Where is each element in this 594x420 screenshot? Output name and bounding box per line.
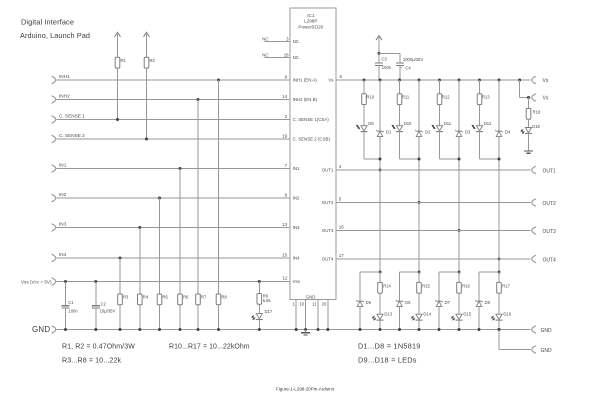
wire IN3 <box>57 227 290 229</box>
svg-text:PowerSO20: PowerSO20 <box>298 24 323 29</box>
resistor R5 <box>157 294 168 305</box>
junction R5 / GND <box>158 328 161 331</box>
wire Vss to R9 <box>258 282 260 294</box>
resistor R15 <box>417 272 431 293</box>
resistor R7 <box>196 294 207 305</box>
wire INH1 to R8 <box>218 80 220 294</box>
svg-text:14: 14 <box>282 94 288 99</box>
wire lower link 1 <box>360 272 380 301</box>
node C. SENSE 2 connector <box>52 133 86 143</box>
wire C3/C4 branch <box>379 53 400 63</box>
pin 12 Vss <box>282 275 288 280</box>
svg-text:D9...D18 = LEDs: D9...D18 = LEDs <box>358 356 417 365</box>
svg-text:D5: D5 <box>366 300 372 305</box>
svg-text:INH1: INH1 <box>59 74 70 79</box>
wire R11 to D10 <box>399 105 401 126</box>
resistor R9 5.6k <box>257 294 272 305</box>
wire D4 to OUT4 <box>498 137 500 259</box>
svg-text:R11: R11 <box>402 95 410 100</box>
svg-text:NC: NC <box>262 52 268 57</box>
svg-text:OUT4: OUT4 <box>543 257 557 263</box>
LED D16 <box>492 312 512 321</box>
LED D18 <box>521 124 540 133</box>
wire Vs stub to Vs connector 2 <box>520 80 531 98</box>
svg-text:20: 20 <box>322 302 327 307</box>
svg-text:R15: R15 <box>422 283 430 288</box>
junction OUT2 <box>418 201 421 204</box>
junction OUT3 <box>458 229 461 232</box>
node OUT1 connector <box>532 166 556 174</box>
resistor R18 <box>526 108 541 119</box>
wire IN3 to R4 <box>139 228 141 295</box>
svg-text:100n: 100n <box>382 65 392 70</box>
junction Vss / R9 <box>258 280 261 283</box>
wire OUT4 to lower link <box>498 259 500 272</box>
pin 13 IN3 <box>282 222 288 227</box>
svg-text:IN1: IN1 <box>293 166 300 171</box>
wire R9 to D17 <box>258 304 260 313</box>
svg-text:D14: D14 <box>423 312 431 317</box>
wire Vss <box>57 281 290 283</box>
svg-text:NC: NC <box>262 36 268 41</box>
svg-text:R1, R2 = 0.47Ohm/3W: R1, R2 = 0.47Ohm/3W <box>62 344 135 351</box>
svg-text:R10: R10 <box>366 95 374 100</box>
svg-text:C. SENSE 2 (CSB): C. SENSE 2 (CSB) <box>293 137 331 142</box>
node GND connector <box>32 325 56 334</box>
pin 20 GND stub <box>322 299 330 331</box>
node OUT4 connector <box>532 255 556 263</box>
junction Vss / C1 <box>64 280 67 283</box>
wire INH2 <box>57 99 290 101</box>
svg-text:R2: R2 <box>150 58 156 63</box>
svg-text:R5: R5 <box>163 294 169 299</box>
junction Vs rail / D2 <box>418 79 421 82</box>
junction R4 / GND <box>138 328 141 331</box>
wire D13 to GND <box>379 320 382 331</box>
wire R4 to GND <box>139 305 141 330</box>
junction lower link 4 <box>498 271 501 274</box>
svg-text:R17: R17 <box>502 283 510 288</box>
resistor R2 <box>144 57 155 68</box>
diode D8 1N5819 <box>475 300 490 307</box>
wire R18 to D18 <box>528 119 530 127</box>
svg-text:D15: D15 <box>463 312 471 317</box>
svg-text:NC: NC <box>293 55 299 60</box>
svg-text:D17: D17 <box>265 309 273 314</box>
wire OUT3 to lower link <box>458 231 460 273</box>
svg-text:OUT1: OUT1 <box>322 168 334 173</box>
LED D10 <box>392 121 412 131</box>
node OUT3 connector <box>532 227 556 235</box>
resistor R6 <box>178 294 189 305</box>
junction R18 / Vs stub <box>527 96 530 99</box>
svg-text:R7: R7 <box>201 294 207 299</box>
pin 4 OUT1 <box>339 164 342 169</box>
svg-text:13: 13 <box>282 222 288 227</box>
wire IN4 to R3 <box>119 258 121 294</box>
svg-text:L298P: L298P <box>304 19 317 24</box>
title text Arduino, Launch Pad <box>20 31 90 40</box>
node INH2 connector <box>52 94 70 104</box>
LED D15 <box>452 312 472 321</box>
junction lower link 3 <box>458 271 461 274</box>
svg-text:R10...R17 = 10...22kOhm: R10...R17 = 10...22kOhm <box>169 344 250 351</box>
wire R2 to C.SENSE 2 <box>146 68 148 139</box>
wire R13 to D12 <box>479 105 481 126</box>
svg-text:Digital Interface: Digital Interface <box>21 17 74 26</box>
wire OUT2 to lower link <box>418 203 420 273</box>
svg-text:GND: GND <box>541 348 553 354</box>
wire R10 to D9 <box>363 105 365 126</box>
capacitor C1 100n <box>62 282 79 330</box>
note D1..D8 value <box>358 342 421 351</box>
junction R1 / C.SENSE 1 <box>116 118 119 121</box>
svg-text:R4: R4 <box>143 294 149 299</box>
svg-text:18: 18 <box>284 52 289 57</box>
pin 3 NC stub <box>262 36 290 41</box>
wire Vs to D1 <box>379 80 381 131</box>
resistor R4 <box>138 294 149 305</box>
junction Vs rail / D1 <box>379 79 382 82</box>
svg-text:D7: D7 <box>445 300 451 305</box>
junction OUT4 <box>498 258 501 261</box>
diode D2 1N5819 <box>415 130 431 137</box>
svg-text:D10: D10 <box>404 121 412 126</box>
pin 14 INH2 <box>282 94 288 99</box>
capacitor C4 1000u/35V <box>396 57 423 80</box>
node IN1 connector <box>52 163 67 173</box>
svg-text:R14: R14 <box>383 283 391 288</box>
svg-text:11: 11 <box>312 302 317 307</box>
svg-text:GND: GND <box>32 325 50 334</box>
svg-text:INH1 (EN A): INH1 (EN A) <box>293 78 318 83</box>
LED D14 <box>412 312 432 321</box>
capacitor C3 100n <box>375 53 392 80</box>
svg-text:IN2: IN2 <box>293 196 300 201</box>
svg-text:5.6k: 5.6k <box>263 298 272 303</box>
wire IN4 <box>57 257 290 259</box>
svg-text:D6: D6 <box>405 300 411 305</box>
svg-text:IN3: IN3 <box>59 222 67 227</box>
junction R8 / GND <box>217 328 220 331</box>
wire Vs to D4 <box>498 80 500 131</box>
svg-text:OUT1: OUT1 <box>543 168 557 174</box>
pin 2 C. SENSE 1 <box>285 114 288 119</box>
wire lower link 2 <box>400 272 420 301</box>
svg-text:R18: R18 <box>533 109 541 114</box>
svg-text:Vs: Vs <box>543 78 549 84</box>
caption Figure-1-L298-20Pin-Arduino <box>276 387 335 392</box>
junction Vs rail / R12 <box>438 79 441 82</box>
junction IN3 / R4 <box>138 226 141 229</box>
wire D10 to link <box>400 132 420 159</box>
svg-text:+: + <box>400 65 403 70</box>
note R1 R2 value <box>62 344 135 351</box>
wire Vs rail <box>336 79 530 81</box>
wire R1 to C.SENSE 1 <box>117 68 119 119</box>
svg-text:1000µ/35V: 1000µ/35V <box>403 57 424 62</box>
wire lower link 3 <box>439 272 459 301</box>
svg-text:IN4: IN4 <box>293 256 300 261</box>
wire D18 to ground <box>528 133 530 151</box>
pin 5 OUT2 <box>339 197 342 202</box>
svg-text:R12: R12 <box>442 95 450 100</box>
junction IN2 / R5 <box>158 197 161 200</box>
node IN2 connector <box>52 192 67 202</box>
junction R6 / GND <box>179 328 182 331</box>
pin 8 INH1 <box>285 74 288 79</box>
node C. SENSE 1 connector <box>52 114 86 124</box>
svg-text:16: 16 <box>339 225 345 230</box>
diode D4 1N5819 <box>495 130 511 137</box>
resistor R13 <box>477 80 490 105</box>
svg-text:10: 10 <box>299 302 304 307</box>
pin 19 C. SENSE 2 <box>282 133 288 138</box>
svg-text:OUT4: OUT4 <box>322 257 334 262</box>
LED D9 <box>357 121 375 131</box>
svg-text:Vss: Vss <box>293 279 301 284</box>
resistor R17 <box>497 272 511 293</box>
wire R15 to D14 <box>418 293 420 314</box>
wire OUT4 <box>336 258 530 260</box>
svg-text:15: 15 <box>282 252 288 257</box>
wire D11 to link <box>440 132 460 159</box>
svg-text:INH2: INH2 <box>59 94 70 99</box>
svg-text:D4: D4 <box>505 130 511 135</box>
junction link / D1 <box>379 158 382 161</box>
junction Vs rail / D3 <box>458 79 461 82</box>
resistor R10 <box>362 80 375 105</box>
pin 6 Vs <box>340 74 343 79</box>
wire D6 to GND <box>398 307 401 331</box>
svg-text:C1: C1 <box>68 300 74 305</box>
junction R2 / C.SENSE 2 <box>145 138 148 141</box>
diode D3 1N5819 <box>455 130 471 137</box>
svg-text:Vs: Vs <box>543 96 549 102</box>
wire OUT3 <box>336 230 530 232</box>
wire lower link 4 <box>479 272 499 301</box>
svg-text:Arduino, Launch Pad: Arduino, Launch Pad <box>20 31 90 40</box>
svg-text:R13: R13 <box>482 95 490 100</box>
svg-text:R6: R6 <box>183 294 189 299</box>
svg-text:D18: D18 <box>532 124 540 129</box>
svg-text:D11: D11 <box>444 121 452 126</box>
pin 11 GND stub <box>312 299 319 331</box>
svg-text:C. SENSE 2: C. SENSE 2 <box>59 133 85 138</box>
svg-text:GND: GND <box>541 328 553 334</box>
svg-text:R8: R8 <box>222 294 228 299</box>
svg-text:Vs: Vs <box>328 78 334 83</box>
svg-text:IN3: IN3 <box>293 225 300 230</box>
wire IN2 <box>57 197 290 199</box>
wire D2 to OUT2 <box>418 137 420 203</box>
wire Vs to D2 <box>418 80 420 131</box>
svg-text:R1: R1 <box>121 58 127 63</box>
resistor R3 <box>118 294 129 305</box>
wire D8 to GND <box>478 307 481 331</box>
LED D17 <box>252 309 273 320</box>
svg-text:D16: D16 <box>503 312 511 317</box>
junction Vs rail / R10 <box>363 79 366 82</box>
svg-text:C. SENSE 1: C. SENSE 1 <box>59 114 85 119</box>
wire C. SENSE 1 <box>57 119 290 121</box>
wire D12 to link <box>480 132 500 159</box>
svg-text:Vss (Vcc = 5V): Vss (Vcc = 5V) <box>21 280 52 285</box>
diode D1 1N5819 <box>376 130 392 137</box>
wire R5 to GND <box>159 305 161 330</box>
junction D17 / GND <box>258 328 261 331</box>
resistor R8 <box>216 294 227 305</box>
pin 18 NC stub <box>262 52 290 57</box>
svg-text:OUT2: OUT2 <box>543 201 557 207</box>
ground symbol at IC <box>301 330 310 335</box>
svg-text:17: 17 <box>339 253 345 258</box>
junction link / D4 <box>498 158 501 161</box>
svg-text:12: 12 <box>282 275 288 280</box>
LED D13 <box>373 312 393 321</box>
supply arrow Vs for R1 <box>115 32 121 57</box>
wire D5 to GND <box>359 307 362 331</box>
node IN4 connector <box>52 252 67 262</box>
svg-text:IN4: IN4 <box>59 252 67 257</box>
wire D14 to GND <box>418 320 421 331</box>
junction R7 / GND <box>197 328 200 331</box>
wire D1 to OUT1 <box>379 137 381 170</box>
svg-text:GND: GND <box>306 294 316 299</box>
svg-text:IN1: IN1 <box>59 163 67 168</box>
wire Vs stub to R18 <box>528 98 530 109</box>
junction OUT1 <box>379 169 382 172</box>
diode D7 1N5819 <box>435 300 450 307</box>
node OUT2 connector <box>532 199 556 207</box>
svg-text:D12: D12 <box>484 121 492 126</box>
wire OUT2 <box>336 202 530 204</box>
supply arrow Vs for R2 <box>144 32 150 57</box>
junction IN1 / R6 <box>179 167 182 170</box>
pin 17 OUT4 <box>339 253 345 258</box>
svg-text:D8: D8 <box>485 300 491 305</box>
node GND connector right 2 <box>532 346 552 354</box>
wire D15 to GND <box>458 320 461 331</box>
wire R12 to D11 <box>439 105 441 126</box>
junction Vs rail / R18 stub <box>518 79 521 82</box>
wire D9 to link <box>364 132 380 159</box>
svg-text:C4: C4 <box>405 65 411 70</box>
junction R3 / GND <box>119 328 122 331</box>
wire OUT1 to lower link <box>379 170 381 272</box>
wire GND stub <box>499 330 530 350</box>
resistor R16 <box>457 272 471 293</box>
wire R7 to GND <box>197 305 199 330</box>
resistor R1 <box>115 57 126 68</box>
svg-text:R3: R3 <box>123 294 129 299</box>
svg-text:D2: D2 <box>425 130 431 135</box>
note R3..R8 value <box>62 357 122 365</box>
resistor R14 <box>378 272 392 293</box>
node Vs connector 1 <box>532 76 549 84</box>
capacitor C2 10u/35V <box>91 282 115 330</box>
node GND connector right 1 <box>532 326 552 334</box>
junction GND rail / stub <box>498 328 501 331</box>
wire IN1 to R6 <box>179 169 181 295</box>
pin 15 IN4 <box>282 252 288 257</box>
note D9..D18 value <box>358 356 417 365</box>
svg-text:19: 19 <box>282 133 288 138</box>
diode D6 1N5819 <box>396 300 411 307</box>
svg-text:R3...R8 = 10...22k: R3...R8 = 10...22k <box>62 357 122 365</box>
wire D7 to GND <box>438 307 441 331</box>
wire OUT1 <box>336 169 530 171</box>
svg-text:D1: D1 <box>386 130 392 135</box>
svg-text:IN2: IN2 <box>59 192 67 197</box>
junction link / D2 <box>418 158 421 161</box>
node INH1 connector <box>52 74 70 84</box>
pin 16 OUT3 <box>339 225 345 230</box>
pin 1 GND stub <box>292 299 297 331</box>
svg-text:OUT3: OUT3 <box>322 228 334 233</box>
wire R17 to D16 <box>498 293 500 314</box>
svg-text:100n: 100n <box>68 308 78 313</box>
pin 7 IN1 <box>285 163 288 168</box>
pin 10 GND stub <box>299 299 307 331</box>
junction Vss / C2 <box>94 280 97 283</box>
junction Vs rail / D4 <box>498 79 501 82</box>
wire D16 to GND <box>498 320 501 331</box>
IC1 left pin names <box>293 39 331 284</box>
LED D11 <box>432 121 452 131</box>
svg-text:C2: C2 <box>101 302 107 307</box>
wire Vs to D3 <box>458 80 460 131</box>
wire INH2 to R7 <box>197 100 199 295</box>
junction Vs rail / R13 <box>478 79 481 82</box>
svg-text:NC: NC <box>293 39 299 44</box>
junction Vs rail / R11 <box>398 79 401 82</box>
supply arrow Vs at C3 <box>376 36 382 54</box>
svg-text:Figure-1-L298-20Pin-Arduino: Figure-1-L298-20Pin-Arduino <box>276 387 335 392</box>
svg-text:C3: C3 <box>381 57 387 62</box>
wire R3 to GND <box>119 305 121 330</box>
resistor R11 <box>397 80 410 105</box>
node Vss connector <box>21 278 56 286</box>
wire C. SENSE 2 <box>57 138 290 140</box>
wire IN2 to R5 <box>159 198 161 294</box>
svg-text:D9: D9 <box>368 121 374 126</box>
junction INH2 / R7 <box>197 98 200 101</box>
svg-text:D13: D13 <box>384 312 392 317</box>
ground symbol at D18 <box>524 151 533 153</box>
node Vs connector 2 <box>532 94 549 102</box>
wire GND rail <box>57 329 531 331</box>
pin 9 IN2 <box>285 192 288 197</box>
svg-text:D1...D8 = 1N5819: D1...D8 = 1N5819 <box>358 342 421 351</box>
junction C1 / GND <box>64 328 67 331</box>
junction link / D3 <box>458 158 461 161</box>
svg-text:D3: D3 <box>465 130 471 135</box>
resistor R12 <box>437 80 450 105</box>
svg-text:INH2 (EN B): INH2 (EN B) <box>293 97 318 102</box>
wire D3 to OUT3 <box>458 137 460 231</box>
svg-text:OUT3: OUT3 <box>543 229 557 235</box>
junction lower link 1 <box>379 271 382 274</box>
junction C3 branch <box>378 52 381 55</box>
wire R6 to GND <box>179 305 181 330</box>
note R10..R17 value <box>169 344 250 351</box>
svg-text:10µ/35V: 10µ/35V <box>100 308 116 313</box>
node IN3 connector <box>52 222 67 232</box>
wire R8 to GND <box>218 305 220 330</box>
wire R14 to D13 <box>379 293 381 314</box>
wire D17 to GND <box>258 320 260 330</box>
